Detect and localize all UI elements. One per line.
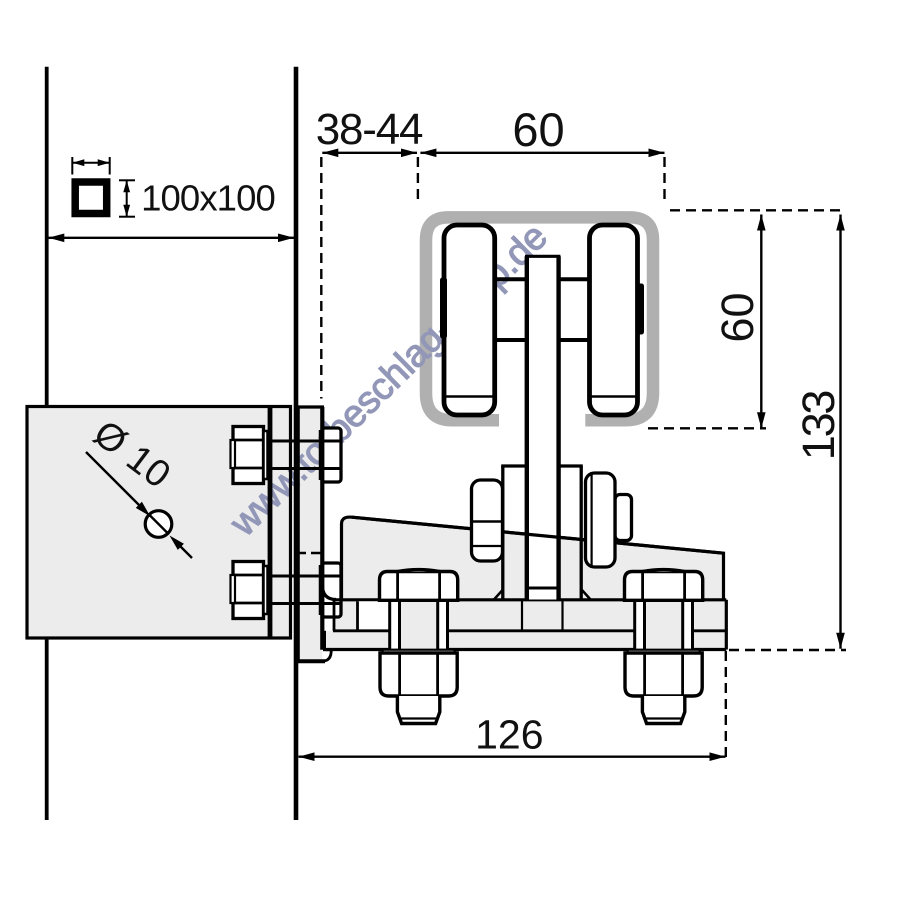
svg-text:100x100: 100x100 xyxy=(141,178,275,219)
svg-text:60: 60 xyxy=(712,292,763,342)
svg-text:126: 126 xyxy=(475,712,543,758)
svg-text:60: 60 xyxy=(512,103,564,156)
svg-text:133: 133 xyxy=(793,391,844,461)
svg-text:38-44: 38-44 xyxy=(316,105,423,154)
